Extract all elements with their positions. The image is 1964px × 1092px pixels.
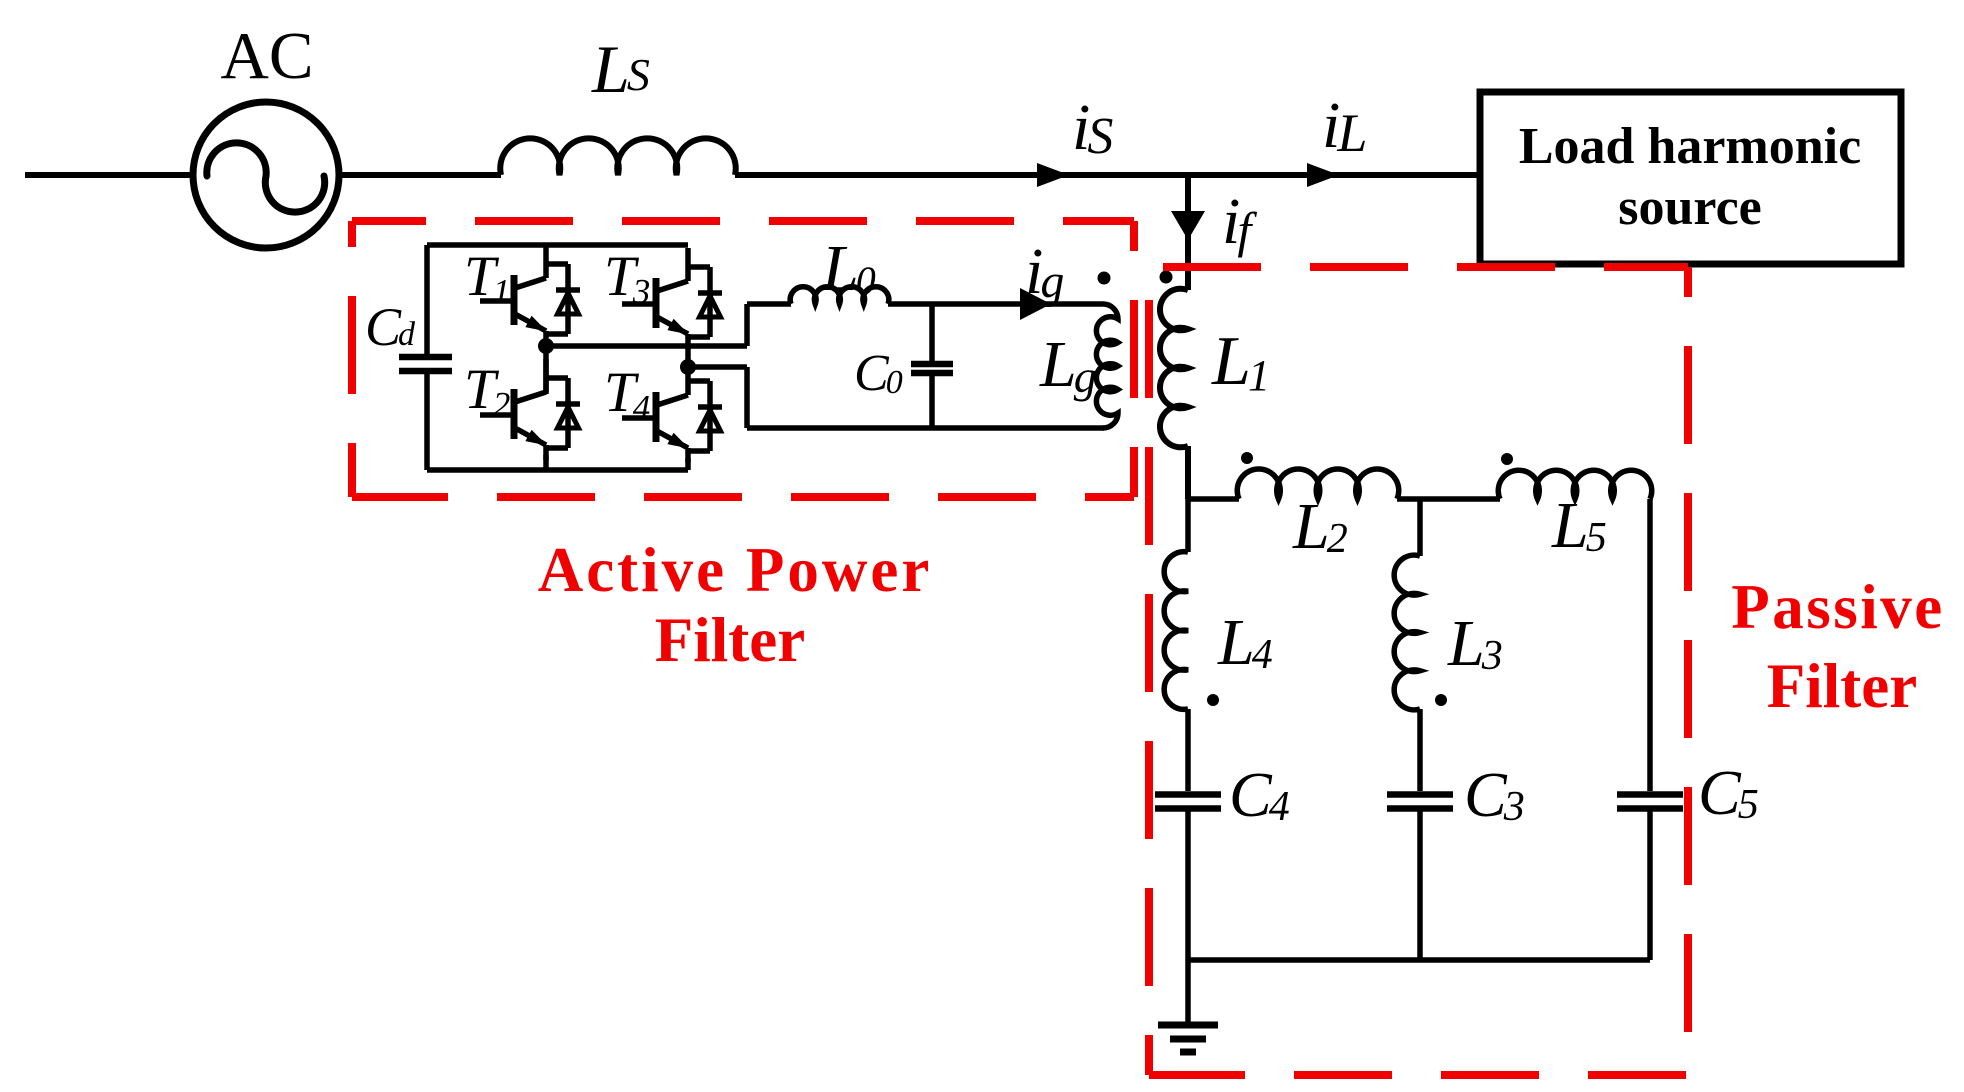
svg-text:Load harmonic: Load harmonic <box>1519 118 1861 175</box>
svg-text:AC: AC <box>220 19 313 93</box>
svg-text:Filter: Filter <box>1767 651 1917 721</box>
svg-text:Active Power: Active Power <box>538 535 933 605</box>
svg-text:Passive: Passive <box>1731 572 1944 642</box>
svg-text:source: source <box>1618 179 1761 236</box>
svg-text:Filter: Filter <box>655 605 805 675</box>
